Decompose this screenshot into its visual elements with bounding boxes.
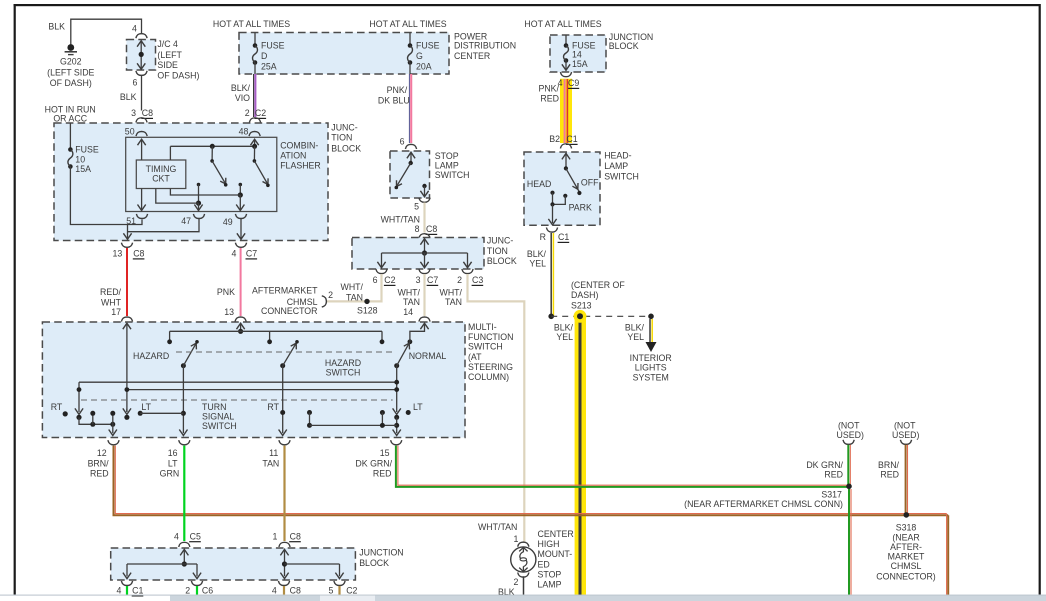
fuse D 25A xyxy=(253,33,285,75)
connector R C1 xyxy=(540,228,570,243)
svg-text:OFF: OFF xyxy=(581,178,599,188)
svg-text:47: 47 xyxy=(181,216,191,226)
svg-text:DK GRN/: DK GRN/ xyxy=(806,460,843,470)
wire fuse 10 to pin 13 node xyxy=(70,167,142,225)
hazard feed bus xyxy=(167,331,384,344)
svg-text:LT: LT xyxy=(141,402,151,412)
svg-text:16: 16 xyxy=(168,448,178,458)
svg-text:SWITCH: SWITCH xyxy=(435,170,470,180)
connector 12 xyxy=(88,440,120,478)
svg-text:3: 3 xyxy=(416,275,421,285)
junction block (fuse 14) xyxy=(550,32,653,72)
svg-text:BLOCK: BLOCK xyxy=(487,256,517,266)
svg-text:J/C 4: J/C 4 xyxy=(157,39,178,49)
svg-text:5: 5 xyxy=(414,202,419,212)
wire RED/WHT xyxy=(100,248,127,317)
svg-text:COMBIN-: COMBIN- xyxy=(280,140,318,150)
wire PNK/DK BLU fuse G to stop lamp switch xyxy=(378,74,411,143)
headlamp switch box xyxy=(524,150,639,225)
bottom junction block right splice xyxy=(280,549,343,578)
svg-text:CKT: CKT xyxy=(152,174,170,184)
svg-text:13: 13 xyxy=(224,307,234,317)
svg-text:TAN: TAN xyxy=(403,297,420,307)
fuse 14 15A xyxy=(562,35,596,70)
svg-text:G: G xyxy=(416,51,423,61)
connector pin 1 stop lamp xyxy=(513,534,528,547)
wire DK GRN/RED to S317 xyxy=(806,445,850,486)
label LT right xyxy=(406,402,424,415)
svg-text:C7: C7 xyxy=(246,249,257,259)
svg-text:INTERIOR: INTERIOR xyxy=(630,353,672,363)
svg-text:SWITCH: SWITCH xyxy=(326,368,361,378)
svg-text:LT: LT xyxy=(413,402,423,412)
svg-text:LT: LT xyxy=(168,459,178,469)
bottom junction block left splice xyxy=(123,549,201,578)
svg-text:CONNECTOR): CONNECTOR) xyxy=(876,571,936,581)
svg-text:C7: C7 xyxy=(427,275,438,285)
svg-text:2: 2 xyxy=(457,275,462,285)
connector 8 C8 xyxy=(415,224,438,238)
connector 17 (RED/WHT) xyxy=(121,317,132,322)
svg-text:HOT AT ALL TIMES: HOT AT ALL TIMES xyxy=(369,19,446,29)
pin 49 xyxy=(223,214,247,227)
svg-text:R: R xyxy=(540,232,546,242)
svg-text:C2: C2 xyxy=(346,586,357,596)
hazard switch blade right xyxy=(280,340,299,368)
svg-text:S213: S213 xyxy=(571,300,592,310)
fuse G 20A xyxy=(408,33,440,75)
svg-text:CENTER: CENTER xyxy=(538,529,574,539)
pin 47 xyxy=(181,214,204,226)
connector 13 C8 xyxy=(113,243,145,259)
svg-text:MULTI-: MULTI- xyxy=(468,322,497,332)
svg-text:C1: C1 xyxy=(566,134,577,144)
junction block (stop lamp) xyxy=(352,236,517,269)
flasher left contact blade xyxy=(210,144,228,187)
svg-text:LIGHTS: LIGHTS xyxy=(635,363,667,373)
svg-text:YEL: YEL xyxy=(529,259,546,269)
svg-text:C8: C8 xyxy=(426,224,437,234)
svg-text:ATION: ATION xyxy=(280,150,306,160)
svg-text:COLUMN): COLUMN) xyxy=(468,372,509,382)
flasher output to pin 51 xyxy=(138,189,146,211)
svg-text:BLOCK: BLOCK xyxy=(359,558,389,568)
pin 15 column xyxy=(393,366,401,436)
svg-text:YEL: YEL xyxy=(627,332,644,342)
connector 1 C8 xyxy=(272,531,300,547)
wire PNK xyxy=(217,248,241,317)
svg-text:C2: C2 xyxy=(384,275,395,285)
svg-text:DK GRN/: DK GRN/ xyxy=(355,459,392,469)
label NORMAL xyxy=(409,351,447,361)
label TURN SIGNAL SWITCH xyxy=(202,402,237,431)
junction block (bottom) xyxy=(111,548,404,581)
svg-text:4: 4 xyxy=(272,586,277,596)
RT contact cluster left xyxy=(75,382,117,435)
svg-text:TAN: TAN xyxy=(262,459,279,469)
svg-text:JUNC-: JUNC- xyxy=(487,236,513,246)
turn signal feed line 2 xyxy=(125,387,397,392)
highlight yellow on PNK/RED wire xyxy=(560,79,572,143)
svg-text:BLOCK: BLOCK xyxy=(331,143,361,153)
timing ckt to pin 49 wire xyxy=(170,189,240,196)
svg-text:4: 4 xyxy=(116,586,121,596)
svg-text:CHMSL: CHMSL xyxy=(891,561,922,571)
svg-text:5: 5 xyxy=(328,586,333,596)
svg-text:49: 49 xyxy=(223,217,233,227)
flasher left fixed contact xyxy=(196,183,201,206)
pin 11 column xyxy=(279,366,287,436)
connector 15 xyxy=(355,440,401,478)
splice S213 with highlight xyxy=(548,310,651,342)
svg-text:6: 6 xyxy=(132,78,137,88)
connector 5 C2 xyxy=(328,581,357,596)
svg-text:10: 10 xyxy=(75,155,85,165)
svg-text:SYSTEM: SYSTEM xyxy=(633,372,669,382)
wire DK GRN/RED pin 15 to splice S317 xyxy=(396,446,849,487)
connector 3 C8 xyxy=(131,108,153,122)
combination flasher box xyxy=(126,137,321,211)
headlamp switch contacts xyxy=(527,153,599,225)
connector (NOT USED) BRN/RED xyxy=(892,420,919,444)
connector pin 6 stop lamp switch xyxy=(400,136,417,149)
highlighted BLK/YEL wire to stop lamp circuit xyxy=(575,316,586,594)
connector 16 xyxy=(160,440,190,478)
fuse 10 15A xyxy=(68,123,99,174)
label HOT AT ALL TIMES (fuse 14) xyxy=(524,19,601,29)
connector 2 C6 xyxy=(185,581,213,596)
svg-text:(LEFT SIDE: (LEFT SIDE xyxy=(47,68,94,78)
svg-text:C2: C2 xyxy=(255,108,266,118)
connector 2 C3 xyxy=(457,269,483,285)
svg-text:SWITCH: SWITCH xyxy=(604,172,639,182)
aftermarket CHMSL connector xyxy=(252,286,333,317)
wire BRN/RED to S318 xyxy=(878,445,908,514)
svg-text:15A: 15A xyxy=(572,59,588,69)
svg-text:LAMP: LAMP xyxy=(604,161,628,171)
svg-text:AFTERMARKET: AFTERMARKET xyxy=(252,286,318,296)
svg-text:OR ACC: OR ACC xyxy=(53,114,87,124)
svg-text:4: 4 xyxy=(174,531,179,541)
svg-text:S317: S317 xyxy=(821,489,842,499)
svg-text:FUSE: FUSE xyxy=(261,41,285,51)
connector 4 C8 (bottom) xyxy=(272,581,301,596)
connector (NOT USED) DK GRN/RED xyxy=(837,420,864,444)
connector 4 C1 xyxy=(116,581,143,596)
ground G202 xyxy=(47,44,94,88)
svg-text:14: 14 xyxy=(403,307,413,317)
svg-text:RED: RED xyxy=(90,469,109,479)
svg-text:C6: C6 xyxy=(202,586,213,596)
svg-text:NORMAL: NORMAL xyxy=(409,351,447,361)
svg-text:C1: C1 xyxy=(558,232,569,242)
label HOT AT ALL TIMES (fuse G) xyxy=(369,19,446,29)
label HOT AT ALL TIMES (PDC) xyxy=(213,19,290,29)
connector 11 xyxy=(262,440,290,468)
svg-text:C5: C5 xyxy=(190,531,201,541)
svg-text:PNK/: PNK/ xyxy=(387,85,408,95)
connector 4 C7 xyxy=(231,243,257,259)
svg-text:C8: C8 xyxy=(290,586,301,596)
svg-text:RED: RED xyxy=(373,469,392,479)
svg-text:RT: RT xyxy=(51,402,63,412)
svg-text:PNK: PNK xyxy=(217,287,235,297)
svg-text:50: 50 xyxy=(125,126,135,136)
pin 13 lead xyxy=(237,323,245,334)
svg-text:FUSE: FUSE xyxy=(75,144,99,154)
svg-text:C1: C1 xyxy=(132,586,143,596)
label HOT IN RUN OR ACC xyxy=(45,105,96,124)
svg-text:(NOT: (NOT xyxy=(838,420,860,430)
svg-text:12: 12 xyxy=(97,448,107,458)
svg-text:48: 48 xyxy=(239,126,249,136)
center high mounted stop lamp xyxy=(511,529,574,590)
svg-text:DISTRIBUTION: DISTRIBUTION xyxy=(454,41,516,51)
wire WHT/TAN stop lamp switch to junction block xyxy=(381,203,425,233)
svg-text:2: 2 xyxy=(245,108,250,118)
svg-text:RED: RED xyxy=(824,470,843,480)
svg-text:2: 2 xyxy=(185,586,190,596)
svg-text:BLK: BLK xyxy=(48,22,65,32)
label RT right xyxy=(267,402,279,412)
timing circuit box xyxy=(136,160,186,189)
wire BLK/VIO fuse D to junction block xyxy=(231,74,255,117)
label HAZARD xyxy=(133,351,169,361)
branch to interior lights system xyxy=(625,314,672,383)
connector 4 C9 xyxy=(558,72,580,88)
svg-text:(CENTER OF: (CENTER OF xyxy=(571,280,625,290)
svg-text:TIMING: TIMING xyxy=(146,164,177,174)
wire DK GRN/RED S317 down xyxy=(849,489,851,595)
svg-text:SIDE: SIDE xyxy=(157,60,178,70)
svg-text:BLK/: BLK/ xyxy=(231,83,251,93)
svg-text:17: 17 xyxy=(111,307,121,317)
svg-text:HAZARD: HAZARD xyxy=(325,358,361,368)
switch linkage dashed line lower xyxy=(81,399,393,401)
wire WHT/TAN to aftermarket CHMSL connector xyxy=(327,274,382,302)
svg-text:14: 14 xyxy=(572,50,582,60)
svg-text:HEAD-: HEAD- xyxy=(604,150,631,160)
flasher pin 47 lead xyxy=(194,203,202,210)
timing ckt to pin 47 wire xyxy=(156,189,199,204)
pin 14 lead from normal contact xyxy=(408,323,429,344)
junction connector J/C 4 xyxy=(127,39,200,80)
svg-text:TION: TION xyxy=(331,133,352,143)
splice S317 xyxy=(684,484,852,510)
pin 48 xyxy=(239,126,261,136)
svg-text:3: 3 xyxy=(131,108,136,118)
wire BLK/YEL headlamp switch to S213 xyxy=(527,233,553,316)
svg-text:WHT/TAN: WHT/TAN xyxy=(478,522,517,532)
label WHT/TAN (stop lamp feed) xyxy=(478,522,517,532)
svg-text:11: 11 xyxy=(269,448,278,458)
svg-text:STOP: STOP xyxy=(538,569,562,579)
stop lamp switch box xyxy=(390,151,470,198)
wire TAN pin 11 to junction block xyxy=(283,446,285,541)
wire PNK/RED fuse 14 to headlamp switch xyxy=(538,79,567,143)
svg-text:B2: B2 xyxy=(549,134,560,144)
svg-text:BLOCK: BLOCK xyxy=(609,41,639,51)
flasher right fixed contact xyxy=(238,183,243,198)
svg-text:S318: S318 xyxy=(896,522,917,532)
svg-text:C8: C8 xyxy=(290,531,301,541)
svg-text:CONNECTOR: CONNECTOR xyxy=(261,306,318,316)
svg-text:FUNCTION: FUNCTION xyxy=(468,332,513,342)
svg-text:BRN/: BRN/ xyxy=(88,459,110,469)
connector pin 5 xyxy=(414,198,430,212)
splice S318 xyxy=(876,512,936,581)
wire pin 47 to output xyxy=(128,219,200,232)
svg-text:D: D xyxy=(261,51,267,61)
svg-text:HEAD: HEAD xyxy=(527,179,551,189)
svg-text:6: 6 xyxy=(400,136,405,146)
connector 13 (PNK) xyxy=(235,317,246,322)
svg-text:DK BLU: DK BLU xyxy=(378,96,410,106)
svg-text:15A: 15A xyxy=(75,164,91,174)
svg-text:G202: G202 xyxy=(60,57,82,67)
label CENTER OF DASH / S213 xyxy=(571,280,625,311)
svg-text:BRN/: BRN/ xyxy=(878,460,900,470)
wire BLK from J/C 4 pin 4 to ground G202 xyxy=(48,19,141,46)
svg-text:20A: 20A xyxy=(416,62,432,72)
switch linkage dashed line upper xyxy=(176,351,393,353)
pin 51 xyxy=(126,214,147,226)
multi-function switch box xyxy=(42,322,513,438)
junction block internal wiring to pin 13 xyxy=(123,225,131,240)
turn signal feed line 1 xyxy=(79,381,397,383)
svg-text:BLK/: BLK/ xyxy=(625,323,645,333)
svg-text:BLK/: BLK/ xyxy=(554,323,574,333)
connector 3 C7 xyxy=(416,269,439,285)
svg-text:(NEAR AFTERMARKET CHMSL CONN): (NEAR AFTERMARKET CHMSL CONN) xyxy=(684,499,843,509)
svg-text:S128: S128 xyxy=(357,306,378,316)
svg-text:TURN: TURN xyxy=(202,402,226,412)
svg-text:HOT AT ALL TIMES: HOT AT ALL TIMES xyxy=(524,19,601,29)
svg-text:AFTER-: AFTER- xyxy=(890,542,922,552)
svg-text:BLK/: BLK/ xyxy=(527,249,547,259)
connector 14 (WHT/TAN) xyxy=(419,317,430,322)
svg-text:OF DASH): OF DASH) xyxy=(50,78,92,88)
pin 50 xyxy=(125,126,147,136)
wire BLK stop lamp xyxy=(498,576,523,597)
splice S128 xyxy=(357,299,378,316)
label HAZARD SWITCH xyxy=(325,358,361,378)
wire LT GRN pin 16 to junction block xyxy=(183,446,185,541)
connector 6 C2 xyxy=(373,269,396,285)
svg-text:RT: RT xyxy=(267,402,279,412)
svg-text:PARK: PARK xyxy=(569,202,592,212)
svg-text:GRN: GRN xyxy=(160,469,180,479)
svg-text:6: 6 xyxy=(373,275,378,285)
LT contact cluster right xyxy=(307,410,397,428)
svg-text:PNK/: PNK/ xyxy=(538,84,559,94)
svg-text:LAMP: LAMP xyxy=(538,580,562,590)
svg-text:MOUNT-: MOUNT- xyxy=(538,549,573,559)
svg-text:8: 8 xyxy=(415,224,420,234)
svg-text:C3: C3 xyxy=(472,275,483,285)
connector 4 C5 xyxy=(174,531,201,547)
label LT left xyxy=(138,402,184,416)
flasher feed bus xyxy=(170,146,254,160)
label RT left xyxy=(51,402,68,417)
svg-text:RED: RED xyxy=(540,94,559,104)
svg-text:RED/: RED/ xyxy=(100,287,122,297)
svg-text:SWITCH: SWITCH xyxy=(468,342,503,352)
flasher pin 50 lead xyxy=(138,139,146,160)
svg-text:HAZARD: HAZARD xyxy=(133,351,169,361)
junction block splice wiring xyxy=(377,239,471,268)
connector pin 4 of J/C 4 xyxy=(132,23,147,38)
svg-text:(NEAR: (NEAR xyxy=(892,532,919,542)
svg-text:YEL: YEL xyxy=(556,332,573,342)
wire BRN/RED pin 12 to S318 line xyxy=(114,446,949,595)
svg-text:WHT/: WHT/ xyxy=(341,282,364,292)
svg-text:13: 13 xyxy=(113,249,123,259)
svg-text:(NOT: (NOT xyxy=(894,420,916,430)
svg-text:USED): USED) xyxy=(892,430,919,440)
svg-text:(AT: (AT xyxy=(468,352,482,362)
svg-text:2: 2 xyxy=(513,577,518,587)
svg-text:JUNCTION: JUNCTION xyxy=(359,548,403,558)
svg-text:CENTER: CENTER xyxy=(454,51,490,61)
flasher right contact blade xyxy=(252,144,270,187)
svg-text:25A: 25A xyxy=(261,62,277,72)
svg-text:C8: C8 xyxy=(142,108,153,118)
svg-text:WHT/: WHT/ xyxy=(398,288,421,298)
svg-text:TAN: TAN xyxy=(346,292,363,302)
svg-text:15: 15 xyxy=(380,448,390,458)
svg-text:C9: C9 xyxy=(568,78,579,88)
junction block (combination flasher) xyxy=(54,122,361,240)
connector 2 C2 xyxy=(245,108,266,122)
svg-text:OF DASH): OF DASH) xyxy=(157,70,199,80)
svg-text:(LEFT: (LEFT xyxy=(157,50,182,60)
svg-text:LAMP: LAMP xyxy=(435,161,459,171)
power distribution center box xyxy=(239,31,516,74)
svg-text:4: 4 xyxy=(231,249,236,259)
pin 16 column xyxy=(179,366,187,436)
svg-text:HOT AT ALL TIMES: HOT AT ALL TIMES xyxy=(213,19,290,29)
svg-text:STOP: STOP xyxy=(435,151,459,161)
svg-text:MARKET: MARKET xyxy=(888,552,925,562)
svg-text:C8: C8 xyxy=(133,249,144,259)
svg-text:TION: TION xyxy=(487,246,508,256)
svg-text:STEERING: STEERING xyxy=(468,362,513,372)
svg-text:SWITCH: SWITCH xyxy=(202,421,237,431)
wire WHT/TAN to center stop lamp xyxy=(440,274,525,542)
wire pin 49 to output xyxy=(237,219,245,239)
svg-text:1: 1 xyxy=(272,531,277,541)
svg-text:HIGH: HIGH xyxy=(538,539,560,549)
svg-text:USED): USED) xyxy=(837,430,864,440)
connector pin 2 stop lamp xyxy=(513,573,528,588)
wire BLK J/C4 to junction block pin 3 xyxy=(120,76,142,111)
normal switch blade xyxy=(394,342,410,368)
svg-text:JUNC-: JUNC- xyxy=(331,122,357,132)
pin 17 lead xyxy=(123,323,131,420)
stop lamp switch contacts xyxy=(395,152,429,197)
flasher pin 49 lead xyxy=(236,195,244,211)
svg-text:VIO: VIO xyxy=(235,93,250,103)
hazard switch blade left xyxy=(181,340,199,368)
svg-text:RED: RED xyxy=(880,470,899,480)
connector B2 C1 xyxy=(549,134,578,148)
svg-text:FLASHER: FLASHER xyxy=(280,161,321,171)
svg-text:TAN: TAN xyxy=(445,297,462,307)
connector pin 6 of J/C 4 xyxy=(132,71,147,88)
svg-text:4: 4 xyxy=(132,23,137,33)
svg-text:DASH): DASH) xyxy=(571,290,598,300)
